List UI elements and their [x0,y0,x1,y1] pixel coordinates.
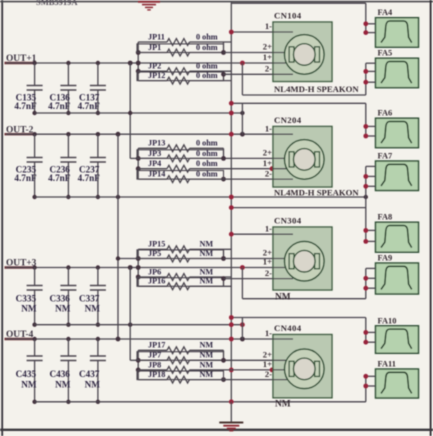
svg-text:CN404: CN404 [274,323,302,333]
wire A2: OUT-2 down to group3 rows [116,132,121,137]
resistor JP5 [137,250,224,259]
svg-text:4.7nF: 4.7nF [14,173,37,183]
wire FA10 pin column [365,318,367,343]
svg-text:CN304: CN304 [274,216,302,226]
svg-text:C435: C435 [16,369,37,379]
svg-text:1+: 1+ [263,52,272,62]
svg-text:0 ohm: 0 ohm [196,139,218,148]
capacitor C436 [66,337,70,341]
svg-text:NM: NM [85,380,101,390]
svg-text:NM: NM [200,240,214,249]
border top [0,1,433,3]
svg-text:JP1: JP1 [148,43,161,52]
svg-text:JP14: JP14 [148,170,165,179]
capacitor C435 [32,337,36,341]
svg-text:4.7nF: 4.7nF [14,101,37,111]
svg-text:JP18: JP18 [148,370,165,379]
wire 2+ line CN104 [224,52,274,54]
wire FA7 pin column [365,166,367,241]
wire FA9 pin column [365,268,367,298]
wire FA11 pin column [365,376,367,402]
border bottom [0,429,433,431]
wire FA6 pin column [365,103,367,136]
svg-text:NM: NM [55,380,71,390]
wire bus2 group4 [240,337,245,342]
resistor JP4 [138,168,167,170]
wire group3 left vertical [137,249,139,286]
ground (bottom) [230,402,232,423]
svg-text:JP13: JP13 [148,139,165,148]
capacitor C335 [32,265,36,269]
resistor JP8 [138,369,167,371]
resistor JP7 [137,352,224,361]
resistor JP13 [138,147,167,149]
svg-text:0 ohm: 0 ohm [196,32,218,41]
svg-text:0 ohm: 0 ohm [196,149,218,158]
capacitor C336 [66,265,70,269]
svg-text:2+: 2+ [263,42,272,52]
svg-text:4.7nF: 4.7nF [48,173,71,183]
wire group3 right vertical bottom pair [223,277,225,286]
svg-text:NM: NM [200,249,214,258]
capacitor C235 [32,132,36,136]
svg-text:0 ohm: 0 ohm [196,159,218,168]
power ground (top, red) [138,1,160,3]
svg-text:NM: NM [275,293,291,303]
capacitor C237 [96,132,100,136]
wire FA4 pin column [365,3,367,32]
svg-text:C337: C337 [79,294,100,304]
svg-text:C336: C336 [49,294,70,304]
svg-text:FA8: FA8 [378,213,393,222]
svg-text:4.7nF: 4.7nF [48,101,71,111]
svg-text:4.7nF: 4.7nF [78,101,101,111]
svg-text:0 ohm: 0 ohm [196,62,218,71]
svg-text:JP2: JP2 [148,62,161,71]
svg-text:JP7: JP7 [148,351,161,360]
resistor JP16 [137,278,224,287]
wire group2 left vertical [137,148,139,179]
svg-text:4.7nF: 4.7nF [78,173,101,183]
svg-text:NM: NM [85,304,101,314]
resistor JP11 [138,41,167,43]
svg-text:NM: NM [21,304,37,314]
svg-text:1+: 1+ [263,359,272,369]
resistor JP18 [137,371,224,380]
svg-text:NM: NM [200,341,214,350]
resistor JP14 [137,171,224,180]
svg-text:2-: 2- [265,168,272,178]
capacitor C137 [96,61,100,65]
svg-text:JP17: JP17 [148,341,165,350]
svg-text:NM: NM [200,370,214,379]
svg-text:JP16: JP16 [148,277,165,286]
capacitor C135 [32,61,36,65]
svg-text:FA7: FA7 [378,152,393,161]
capacitor C236 [66,132,70,136]
wire 2- line CN304 [224,278,274,280]
svg-text:FA6: FA6 [378,109,393,118]
svg-text:FA5: FA5 [378,49,393,58]
svg-text:FA9: FA9 [378,254,393,263]
wire bus1 vertical (1- / ground net) [230,2,232,403]
svg-text:0 ohm: 0 ohm [196,43,218,52]
svg-text:NM: NM [200,360,214,369]
svg-text:2-: 2- [265,64,272,74]
wire FA5 pin column [365,63,367,95]
resistor JP15 [138,248,167,250]
svg-text:JP11: JP11 [148,32,165,41]
svg-text:C335: C335 [16,294,37,304]
wire 1- line CN304 [231,233,273,235]
wire group2 right vertical [223,148,225,158]
resistor JP3 [137,150,224,159]
wire FA4 feed from bus1 top [231,2,365,4]
svg-text:1+: 1+ [263,158,272,168]
wire A1: OUT+1 down to group2 rows [128,61,133,66]
resistor JP1 [137,44,224,53]
svg-text:1-: 1- [265,223,272,233]
svg-text:NM: NM [200,267,214,276]
wire group1 left vertical [137,42,139,81]
wire 2- line CN104 [224,73,274,75]
wire group1 right vertical top pair [223,42,225,53]
wire FA8 pin column [365,240,367,242]
svg-text:JP12: JP12 [148,71,165,80]
wire group4 left vertical [137,350,139,379]
resistor JP2 [138,70,167,72]
svg-text:2-: 2- [265,369,272,379]
wire group3 right vertical top pair [223,249,225,258]
svg-text:1+: 1+ [263,257,272,267]
resistor JP6 [138,276,167,278]
svg-text:NM: NM [21,380,37,390]
svg-text:JP5: JP5 [148,249,161,258]
wire cap bus group1 [35,112,243,114]
wire group4 right vertical [223,350,225,360]
wire A3: OUT+3 down to group4 rows [128,265,133,270]
svg-text:CN104: CN104 [274,11,302,21]
wire bus2 group1: 1+ to FA5 [240,61,245,66]
border left [1,0,3,436]
svg-text:NM: NM [55,304,71,314]
wire bus2 group3: 1+ to FA9 [240,265,245,270]
svg-text:NM: NM [200,277,214,286]
svg-text:NM: NM [200,351,214,360]
svg-text:JP4: JP4 [148,159,161,168]
svg-text:JP8: JP8 [148,360,161,369]
wire FA7/FA8 feed from bus1 [231,207,365,209]
wire FA10 feed line [231,317,365,319]
svg-text:CN204: CN204 [274,115,302,125]
svg-text:0 ohm: 0 ohm [196,71,218,80]
wire bus2 group2: 1- to FA6 [240,132,245,137]
wire 1- line CN104 [231,31,273,33]
svg-text:JP3: JP3 [148,149,161,158]
capacitor C337 [96,265,100,269]
border right [430,0,432,436]
wire 2+ line CN304 [224,258,274,260]
svg-text:1-: 1- [265,21,272,31]
svg-text:C436: C436 [49,369,70,379]
wire cap bus group4 / ground bus [35,401,366,403]
svg-text:C437: C437 [79,369,100,379]
capacitor C437 [96,337,100,341]
wire cap bus group3 (to bus2) [35,324,243,326]
svg-text:FA4: FA4 [378,8,394,17]
wire cap bus group2 (to FA7 column) [35,196,366,198]
resistor JP12 [137,72,224,81]
svg-text:JP15: JP15 [148,240,165,249]
svg-text:NM: NM [275,399,291,409]
svg-text:0 ohm: 0 ohm [196,170,218,179]
svg-text:FA11: FA11 [378,360,396,369]
svg-text:NL4MD-H SPEAKON: NL4MD-H SPEAKON [274,187,359,197]
svg-text:NL4MD-H SPEAKON: NL4MD-H SPEAKON [274,84,359,94]
wire group1 right vertical bottom pair [223,71,225,80]
svg-text:2+: 2+ [263,148,272,158]
resistor JP17 [138,349,167,351]
svg-text:JP6: JP6 [148,267,161,276]
svg-text:2-: 2- [265,268,272,278]
capacitor C136 [66,61,70,65]
svg-text:SMB5919A: SMB5919A [36,0,78,7]
svg-text:1-: 1- [265,328,272,338]
svg-text:2+: 2+ [263,350,272,360]
svg-text:1-: 1- [265,123,272,133]
svg-text:FA10: FA10 [378,316,397,325]
